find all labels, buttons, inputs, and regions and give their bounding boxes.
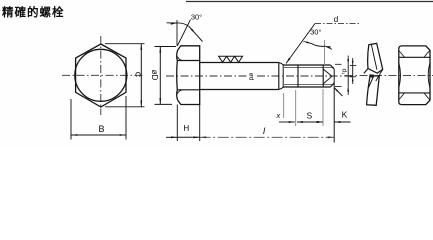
svg-text:l: l bbox=[263, 126, 266, 137]
svg-text:H: H bbox=[183, 124, 189, 133]
svg-text:30°: 30° bbox=[310, 28, 321, 37]
svg-text:C: C bbox=[133, 72, 142, 78]
svg-text:S: S bbox=[306, 110, 312, 120]
svg-text:d: d bbox=[334, 15, 338, 24]
svg-text:K: K bbox=[342, 110, 348, 120]
svg-text:øD: øD bbox=[150, 70, 159, 81]
svg-text:B: B bbox=[98, 124, 104, 134]
svg-text:ød: ød bbox=[248, 73, 255, 81]
svg-text:30°: 30° bbox=[191, 13, 202, 22]
svg-text:d₁: d₁ bbox=[341, 68, 348, 75]
svg-text:x: x bbox=[276, 111, 281, 120]
